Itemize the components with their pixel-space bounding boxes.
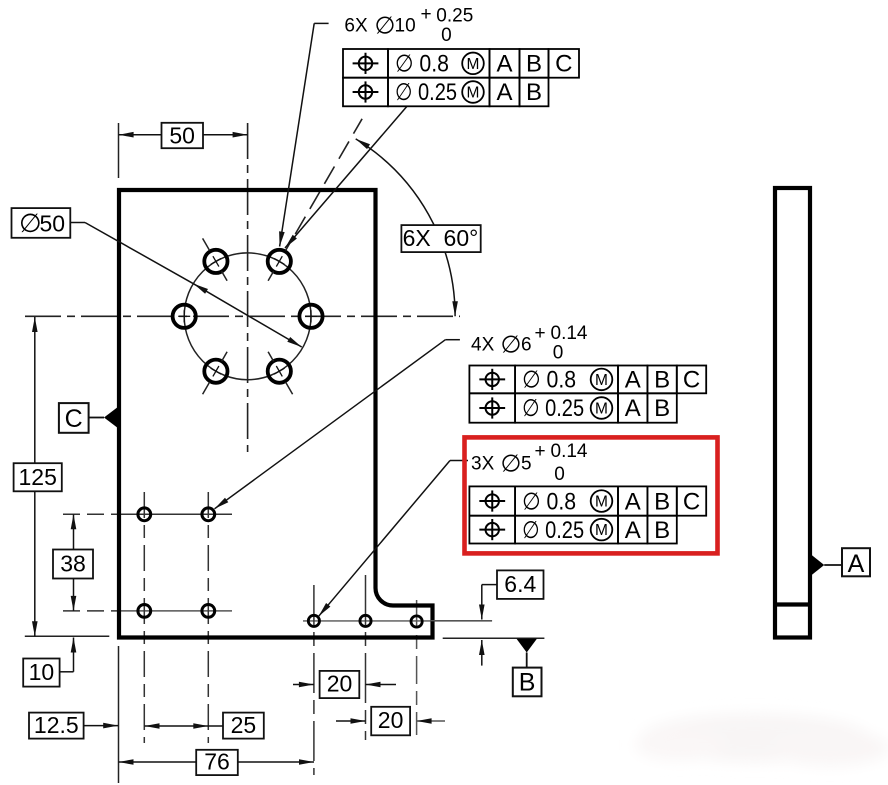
- leader top FCF to hole: [285, 106, 407, 248]
- svg-text:10: 10: [395, 16, 416, 37]
- Ø10 hole 1 on bolt circle: [299, 305, 322, 328]
- svg-text:∅ 0.8: ∅ 0.8: [522, 488, 576, 515]
- centerline column Ø5 hole 3: [416, 600, 418, 735]
- feature control frame for 6X Ø10: [343, 49, 579, 106]
- red highlight rectangle: [465, 437, 718, 553]
- datum A symbol: [812, 548, 871, 578]
- svg-text:50: 50: [169, 122, 195, 148]
- svg-text:∅ 0.8: ∅ 0.8: [395, 51, 449, 78]
- Ø6 hole 4: [202, 605, 215, 618]
- leader 3X Ø5 callout: [319, 461, 468, 617]
- svg-text:6X: 6X: [344, 16, 368, 37]
- svg-text:B: B: [654, 395, 670, 422]
- callout text 6X Ø10 +0.25/0: [344, 4, 473, 46]
- svg-text:0: 0: [554, 464, 565, 485]
- dimension 12.5: [29, 646, 119, 783]
- feature control frame for 4X Ø6: [469, 366, 706, 423]
- svg-text:5: 5: [521, 454, 532, 475]
- horizontal centerline through bolt circle: [25, 315, 460, 317]
- svg-text:A: A: [848, 550, 865, 578]
- svg-text:B: B: [519, 669, 536, 697]
- callout text 4X Ø6 +0.14/0: [471, 323, 588, 364]
- faint watermark: [635, 714, 888, 766]
- dimension 6.4: [430, 570, 544, 665]
- datum B symbol: [513, 639, 542, 697]
- dimension 6X 60 deg with arc: [356, 139, 481, 316]
- svg-text:125: 125: [19, 464, 57, 490]
- svg-text:6.4: 6.4: [504, 571, 536, 597]
- svg-text:∅: ∅: [501, 332, 522, 359]
- dimension 25: [145, 712, 264, 739]
- callout text 3X Ø5 +0.14/0: [471, 441, 588, 485]
- svg-text:38: 38: [60, 550, 86, 576]
- dimension 20 (first): [293, 671, 396, 698]
- svg-text:∅ 0.25: ∅ 0.25: [395, 79, 457, 106]
- leader 6X Ø10 callout: [279, 23, 329, 246]
- svg-text:A: A: [625, 367, 641, 394]
- svg-text:∅: ∅: [501, 451, 522, 478]
- dashed 60-deg radial centerline: [295, 119, 362, 234]
- svg-text:C: C: [555, 51, 572, 78]
- svg-text:50: 50: [40, 210, 66, 236]
- dimension 20 (second): [336, 707, 445, 736]
- vertical centerline of bolt circle: [247, 123, 249, 452]
- svg-text:76: 76: [204, 749, 230, 775]
- svg-text:20: 20: [378, 707, 404, 733]
- Ø5 hole 2: [360, 615, 371, 626]
- svg-text:+: +: [535, 441, 546, 462]
- dimension 50: [119, 122, 248, 178]
- svg-text:A: A: [496, 79, 512, 106]
- svg-text:B: B: [526, 79, 542, 106]
- centerline column Ø5 hole 2: [365, 575, 367, 740]
- svg-text:∅ 0.8: ∅ 0.8: [522, 367, 576, 394]
- svg-text:A: A: [625, 488, 641, 515]
- svg-text:B: B: [654, 367, 670, 394]
- svg-text:∅: ∅: [375, 13, 396, 40]
- svg-text:M: M: [595, 372, 608, 389]
- svg-text:∅: ∅: [19, 208, 42, 238]
- Ø5 hole 3: [411, 616, 422, 627]
- svg-text:C: C: [683, 367, 700, 394]
- centerline column 1 of Ø6 holes: [143, 492, 145, 743]
- svg-text:M: M: [595, 522, 608, 539]
- svg-text:0.14: 0.14: [551, 441, 588, 462]
- centerline row of Ø5 holes: [303, 620, 492, 622]
- svg-text:3X: 3X: [471, 454, 495, 475]
- Ø10 hole 4 on bolt circle: [173, 305, 196, 328]
- svg-text:0.25: 0.25: [436, 6, 473, 27]
- svg-text:C: C: [683, 488, 700, 515]
- svg-text:A: A: [625, 517, 641, 544]
- svg-text:∅ 0.25: ∅ 0.25: [522, 517, 584, 544]
- svg-text:M: M: [595, 401, 608, 418]
- svg-text:∅ 0.25: ∅ 0.25: [522, 395, 584, 422]
- Ø5 hole 1: [308, 615, 319, 626]
- side view outline: [775, 188, 810, 638]
- svg-text:0: 0: [441, 25, 452, 46]
- dimension Ø50: [12, 208, 302, 347]
- svg-text:B: B: [654, 488, 670, 515]
- svg-text:M: M: [467, 56, 480, 73]
- Ø6 hole 3: [138, 605, 151, 618]
- Ø10 hole 2 on bolt circle: [268, 238, 293, 280]
- svg-text:C: C: [65, 405, 83, 433]
- centerline column 2 of Ø6 holes: [207, 492, 209, 743]
- dimension 125: [14, 317, 110, 636]
- svg-text:10: 10: [29, 659, 55, 685]
- svg-text:M: M: [595, 494, 608, 511]
- bolt circle Ø50: [184, 253, 311, 380]
- Ø6 hole 1: [138, 508, 151, 521]
- svg-text:+: +: [421, 4, 432, 25]
- svg-text:B: B: [526, 51, 542, 78]
- side view step edge line: [775, 602, 810, 606]
- dimension 76: [119, 749, 315, 776]
- centerline column Ø5 hole 1: [313, 585, 315, 775]
- svg-text:A: A: [496, 51, 512, 78]
- Ø10 hole 5 on bolt circle: [203, 352, 228, 394]
- svg-text:0: 0: [553, 343, 564, 364]
- dimension 38: [53, 514, 93, 611]
- Ø10 hole 6 on bolt circle: [268, 352, 293, 394]
- Ø10 hole 3 on bolt circle: [203, 238, 228, 280]
- svg-text:4X: 4X: [471, 334, 495, 355]
- svg-text:6X 60°: 6X 60°: [403, 225, 479, 251]
- svg-text:M: M: [467, 85, 480, 102]
- svg-text:B: B: [654, 517, 670, 544]
- datum C symbol: [59, 403, 118, 433]
- svg-text:6: 6: [521, 334, 532, 355]
- svg-text:12.5: 12.5: [34, 712, 79, 738]
- svg-text:20: 20: [327, 671, 353, 697]
- centerline row lower Ø6 holes: [63, 610, 232, 612]
- svg-text:0.14: 0.14: [551, 323, 588, 344]
- dimension 10: [23, 638, 76, 687]
- plate front view outline: [119, 190, 433, 638]
- svg-text:25: 25: [231, 712, 257, 738]
- Ø6 hole 2: [202, 508, 215, 521]
- feature control frame for 3X Ø5: [469, 486, 706, 543]
- svg-text:+: +: [535, 323, 546, 344]
- svg-text:A: A: [625, 395, 641, 422]
- centerline row upper Ø6 holes: [63, 513, 232, 515]
- leader 4X Ø6 callout: [215, 340, 460, 509]
